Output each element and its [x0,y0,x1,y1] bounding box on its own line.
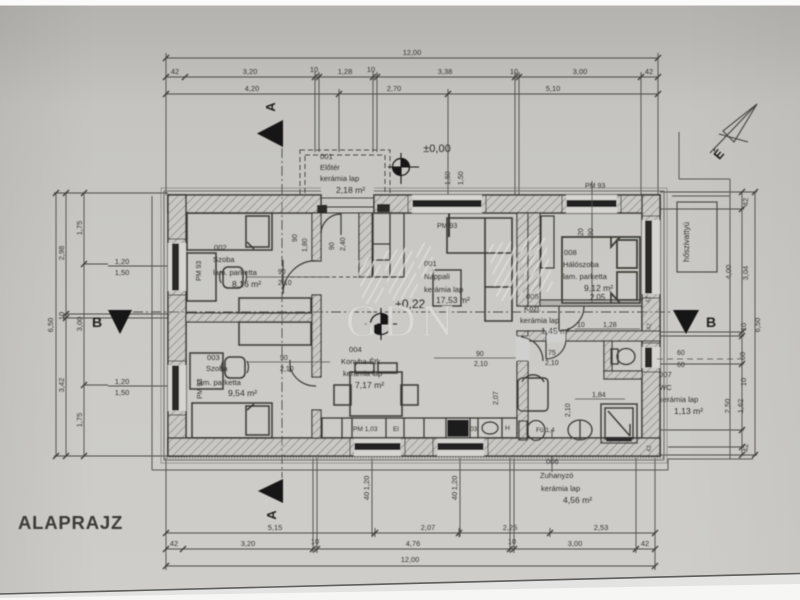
dresser 002 [187,253,216,301]
svg-text:90: 90 [292,234,299,242]
svg-text:42: 42 [646,445,653,452]
svg-text:17,53 m²: 17,53 m² [436,295,470,305]
shower [601,404,637,443]
toilet (WC room) [611,349,635,365]
svg-text:40: 40 [450,492,459,500]
room label 004 Konyha-Étk [341,345,384,390]
bottom dim rows [166,532,655,534]
coffee table [433,270,461,306]
svg-text:42: 42 [641,539,649,548]
door room 002 [282,260,284,294]
svg-text:42: 42 [645,67,653,76]
top scanner white strip [0,0,800,6]
svg-text:Fü 1,4: Fü 1,4 [536,427,555,434]
partition living | bedroom wing [517,213,528,306]
svg-text:Szoba: Szoba [213,255,235,264]
svg-text:lam. parketta: lam. parketta [563,272,608,281]
svg-text:2,05: 2,05 [590,293,606,302]
level marker +0,22 (living) [365,297,426,340]
svg-text:10: 10 [57,312,66,320]
svg-text:3,20: 3,20 [243,67,257,76]
bathroom north wall [528,331,660,341]
room label 008 Hálószoba [563,248,613,302]
chair 003 [225,357,245,378]
svg-text:002: 002 [214,243,227,252]
svg-text:2,53: 2,53 [594,523,608,532]
section marker B right [673,310,716,334]
svg-text:Előtér: Előtér [320,163,340,172]
svg-text:2,07: 2,07 [421,523,435,532]
svg-text:90: 90 [280,355,288,362]
svg-text:2,40: 2,40 [340,237,347,251]
bed 002 [187,213,272,250]
bedroom south wall [540,300,642,306]
svg-text:4,76: 4,76 [406,539,420,548]
svg-text:42: 42 [645,296,652,303]
svg-text:7,17 m²: 7,17 m² [355,380,384,390]
svg-text:kerámia lap: kerámia lap [320,174,359,183]
svg-text:PM 93: PM 93 [437,223,457,230]
right dim chains [741,192,743,455]
room label 001 Nappali [424,259,470,305]
top dim row segments [166,76,658,78]
svg-text:1,20: 1,20 [115,377,129,386]
north arrow [710,104,757,153]
svg-text:2,07: 2,07 [493,391,500,405]
left dim chains [55,193,57,456]
doors [283,207,584,386]
svg-text:42: 42 [741,444,750,452]
svg-text:3,04: 3,04 [741,266,750,280]
svg-text:1,20: 1,20 [450,476,459,490]
svg-text:005: 005 [526,292,539,301]
exterior insulation outline [161,188,667,463]
svg-text:A: A [263,102,278,112]
outer wall: left [168,195,186,456]
svg-text:1,50: 1,50 [445,171,452,185]
svg-text:006: 006 [546,457,559,466]
svg-text:9,54 m²: 9,54 m² [228,388,257,398]
svg-text:3,00: 3,00 [568,539,582,548]
svg-text:42: 42 [170,539,178,548]
svg-text:WC: WC [659,383,672,392]
top dim row 12,00 [166,57,658,59]
washing machine [518,375,548,411]
svg-text:Nappali: Nappali [424,272,450,281]
outer wall: top-left segment [168,195,660,456]
partition below corridor opening [517,331,528,438]
svg-text:1,80: 1,80 [302,238,309,252]
svg-text:8,16 m²: 8,16 m² [232,279,261,289]
interior partition rooms 002/003 [186,213,660,438]
svg-text:1,50: 1,50 [458,171,465,185]
room label 003 Szoba [197,353,257,398]
svg-text:4,00: 4,00 [724,265,733,279]
porch door jambs [317,205,327,213]
left window annotation lines [108,265,187,267]
svg-text:10: 10 [739,323,748,331]
svg-text:1,62: 1,62 [736,399,745,413]
kitchen appliance labels [353,425,555,434]
svg-text:004: 004 [349,345,362,354]
svg-text:12,00: 12,00 [403,48,422,57]
svg-text:10: 10 [311,537,319,546]
svg-text:4,20: 4,20 [245,84,259,93]
svg-text:Hálószoba: Hálószoba [563,260,600,269]
rotated small dims [292,171,595,417]
furniture room 002 [187,213,311,438]
leader for room 006 label [551,430,553,472]
svg-text:2,18 m²: 2,18 m² [336,185,365,195]
window sill lines [168,195,660,456]
svg-text:hőszivattyú: hőszivattyú [682,222,691,262]
svg-text:3,38: 3,38 [438,67,452,76]
svg-text:10: 10 [310,65,318,74]
svg-text:20: 20 [578,228,585,236]
svg-text:2,10: 2,10 [278,280,292,287]
svg-text:90: 90 [278,269,286,276]
svg-text:2,10: 2,10 [545,360,559,367]
chair 002 [223,267,243,288]
svg-text:10: 10 [577,322,585,329]
svg-text:3,42: 3,42 [57,378,66,392]
svg-text:2,98: 2,98 [57,246,66,260]
svg-text:75: 75 [548,350,556,357]
svg-text:1,20: 1,20 [115,257,129,266]
svg-text:PM 93: PM 93 [585,183,605,190]
wardrobe 003 [239,322,311,345]
WC south wall [604,371,642,379]
svg-text:42: 42 [171,67,179,76]
svg-text:2,10: 2,10 [474,361,488,368]
room label 005 Közl [520,292,570,336]
stipple texture under bottom wall [164,456,664,458]
top extension lines [165,53,167,195]
svg-text:5,15: 5,15 [268,523,282,532]
section marker A top [257,102,283,147]
window openings (white) [168,195,660,456]
top dim row 4,20 2,70 5,10 [166,93,658,95]
svg-text:2,25: 2,25 [503,523,517,532]
bedroom west wall [528,213,540,306]
section line A-A [281,148,283,478]
partition rooms | hall (upper part) [312,213,321,261]
svg-text:007: 007 [659,370,672,379]
svg-text:kerámia lap: kerámia lap [541,484,580,493]
svg-text:Szoba: Szoba [206,364,228,373]
svg-text:1,84: 1,84 [592,392,606,399]
svg-text:12,00: 12,00 [401,555,420,564]
front door [340,213,342,235]
stove with burners [448,420,469,437]
porch (Előtér) dashed outline [300,150,390,198]
hall built-in closet [373,213,404,277]
svg-text:B: B [92,314,102,330]
closet nook by bedroom [541,216,554,268]
svg-text:kerámia lap: kerámia lap [343,369,382,378]
svg-text:ALAPRAJZ: ALAPRAJZ [18,512,123,533]
svg-text:A: A [264,510,279,520]
WC door [545,339,547,359]
svg-text:1,28: 1,28 [603,322,617,329]
dimension chains [54,53,757,570]
bedroom door [558,306,560,331]
svg-text:1,45 m²: 1,45 m² [541,326,570,336]
interior door dims [247,269,740,399]
heat pump box [677,202,717,272]
WC west wall [604,341,612,371]
svg-text:10: 10 [739,378,748,386]
svg-text:1,20: 1,20 [362,476,371,490]
svg-text:lam. parketta: lam. parketta [213,268,258,277]
svg-text:60: 60 [677,362,685,369]
svg-text:6,50: 6,50 [753,318,762,332]
svg-text:kerámia lap: kerámia lap [424,285,463,294]
svg-text:1,75: 1,75 [75,413,84,427]
hall/kitchen dashed boundary [290,276,372,278]
svg-text:10: 10 [367,65,375,74]
svg-text:Zuhanyzó: Zuhanyzó [540,471,573,480]
dimension texts [115,48,653,564]
door openings in bathroom walls [516,330,566,361]
svg-text:±0,00: ±0,00 [423,143,450,155]
svg-text:5,10: 5,10 [546,84,560,93]
svg-text:03: 03 [470,426,478,433]
svg-text:42: 42 [741,198,750,206]
section line B-B [133,311,670,313]
svg-text:PM 1,03: PM 1,03 [353,426,378,433]
svg-text:3,00: 3,00 [75,317,84,331]
svg-text:1,13 m²: 1,13 m² [674,406,703,416]
room label 001 Előtér [320,152,365,195]
svg-text:3,20: 3,20 [241,539,255,548]
svg-text:90: 90 [329,242,336,250]
room label 007 WC (right of plan) [659,370,703,416]
svg-text:42: 42 [646,323,653,330]
svg-text:1,75: 1,75 [75,221,84,235]
section marker A bottom [258,479,283,520]
partition hall | living stub [359,213,372,277]
svg-text:90: 90 [588,228,595,236]
outer wall: top-right segment [374,195,660,213]
svg-text:Közl.: Közl. [524,304,541,313]
svg-text:6,50: 6,50 [46,318,55,332]
bedroom double bed [562,237,640,303]
door room 003 [289,360,291,372]
svg-text:4,56 m²: 4,56 m² [563,495,592,505]
svg-text:3,00: 3,00 [573,67,587,76]
svg-text:001: 001 [424,259,437,268]
svg-text:2,10: 2,10 [280,366,294,373]
svg-text:PM 93: PM 93 [196,261,203,281]
room label 006 Zuhanyzó (below plan) [540,457,592,505]
svg-text:001: 001 [320,152,333,161]
svg-text:2,10: 2,10 [565,403,572,417]
partition rooms | hall (mid part) [312,295,321,377]
svg-text:003: 003 [207,353,220,362]
partition rooms | kitchen (lower part) [312,410,321,438]
svg-text:1,50: 1,50 [115,268,129,277]
beam line PM93 living [448,213,450,237]
bed 003 [192,403,272,438]
kitchen counter [322,418,517,438]
washbasin (bathroom) [568,420,592,440]
svg-text:90: 90 [476,351,484,358]
sink [482,422,498,434]
svg-text:008: 008 [564,248,577,257]
svg-text:1,28: 1,28 [338,67,352,76]
svg-text:9,12 m²: 9,12 m² [584,283,613,293]
toilet (bathroom) [519,421,545,441]
bathroom lobby door [521,337,543,361]
window glazing (dark) + frames [173,201,652,450]
room label 002 Szoba [213,243,261,289]
outer wall: bottom [168,438,660,456]
svg-text:10: 10 [510,67,518,76]
svg-text:2,70: 2,70 [387,84,401,93]
svg-text:Konyha-Étk: Konyha-Étk [341,357,380,366]
svg-text:B: B [706,314,716,330]
watermark GDN logo [355,234,554,306]
PM 93 labels [196,183,605,399]
svg-text:El: El [393,426,399,433]
bottom extension lines [165,458,167,570]
plot / terrace boundary lines [152,132,753,470]
svg-text:10: 10 [508,537,516,546]
svg-text:kerámia lap: kerámia lap [659,395,698,404]
svg-text:PM 93: PM 93 [197,379,204,399]
desk 003 [190,353,223,389]
section marker B left [92,310,132,334]
dimension tick marks [53,55,758,569]
level marker ±0,00 (porch) [388,143,451,184]
svg-text:2,50: 2,50 [723,399,732,413]
bottom paper edge (tilted) [0,573,800,600]
svg-text:40: 40 [362,492,371,500]
svg-text:1,50: 1,50 [115,388,129,397]
dining table + chairs [334,363,418,416]
outer wall: right [642,195,660,456]
sofa (living room) [447,218,512,321]
svg-text:60: 60 [677,350,685,357]
svg-text:kerámia lap: kerámia lap [520,316,559,325]
svg-text:H: H [505,425,510,432]
wardrobe 002 [239,298,311,313]
